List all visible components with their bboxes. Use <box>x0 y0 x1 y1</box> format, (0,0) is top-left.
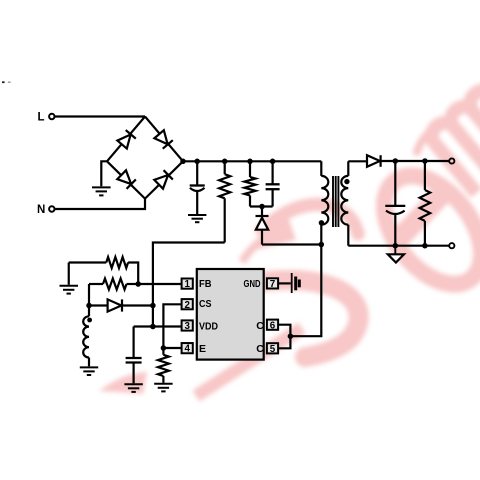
wire snubber bottom <box>250 205 273 207</box>
svg-text:C: C <box>256 343 264 355</box>
pin 7 box <box>267 278 278 288</box>
pin 6 box <box>267 320 278 330</box>
node rail-C1 <box>194 159 200 165</box>
node rail-C2 <box>270 159 276 165</box>
node rail-R1 <box>222 159 228 165</box>
svg-text:1: 1 <box>184 279 190 290</box>
wire collector to primary <box>290 245 321 337</box>
svg-text:5: 5 <box>270 344 276 355</box>
ground (pin7 sideways) <box>292 273 300 293</box>
diode D4 (bridge bottom-right) <box>154 170 173 189</box>
wire secondary top to diode <box>348 160 367 162</box>
svg-text:FB: FB <box>199 278 212 290</box>
resistor R1 (startup) <box>219 161 230 242</box>
wire bridge left vertex to ground <box>101 161 107 186</box>
capacitor C1 (bulk electrolytic) <box>190 161 205 214</box>
wire R4 left down to aux node <box>88 284 90 306</box>
svg-text:CS: CS <box>199 298 212 310</box>
wire R3 left to ground <box>68 263 70 285</box>
capacitor C4 (output electrolytic) <box>385 161 405 246</box>
terminal out- <box>449 243 454 248</box>
ground (output, triangle) <box>388 246 404 263</box>
inductor L1 (aux winding) <box>83 306 89 367</box>
speck marks top-left <box>2 81 11 83</box>
svg-text:L: L <box>38 112 45 124</box>
ground (C1) <box>188 215 206 222</box>
wire E pin4 <box>163 347 181 349</box>
diode D3 (bridge bottom-left) <box>117 170 136 189</box>
wire main DC rail <box>183 160 321 162</box>
resistor R3 (FB upper) <box>69 257 138 284</box>
wire pin6 <box>279 325 291 337</box>
wire GND pin7 <box>279 282 291 284</box>
ground (L1) <box>80 367 98 375</box>
wire output rail <box>381 160 450 162</box>
wire snubber to switch node <box>262 243 321 245</box>
svg-text:VDD: VDD <box>199 320 218 332</box>
wire R1 to VDD node <box>153 243 225 327</box>
resistor R5 (current sense) <box>158 355 169 383</box>
svg-text:GND: GND <box>244 278 261 290</box>
wire N to bridge <box>55 199 145 209</box>
transformer T1 core <box>333 176 338 227</box>
terminal L <box>38 112 55 124</box>
bridge edge bottom-right wire <box>145 161 183 198</box>
aux phase dot <box>87 318 92 323</box>
node switch (primary bottom) <box>319 242 325 248</box>
resistor R6 (load) <box>420 161 431 246</box>
pin 3 box <box>182 320 193 330</box>
diode D2 (bridge top-right) <box>154 130 173 149</box>
node FB divider <box>135 281 141 287</box>
node rail-R2 <box>247 159 253 165</box>
diode D5 (snubber clamp) <box>256 207 269 245</box>
terminal N <box>37 204 55 216</box>
wire FB to pin1 <box>138 283 181 285</box>
svg-text:2: 2 <box>184 300 190 311</box>
node bottom-C4 <box>393 243 399 249</box>
node collector join <box>288 333 294 339</box>
svg-text:E: E <box>199 343 206 355</box>
transformer T1 secondary winding <box>341 161 348 245</box>
capacitor C2 (snubber) <box>266 161 280 206</box>
transformer T1 primary winding <box>321 161 328 244</box>
wire VDD pin3 <box>134 325 181 327</box>
wire output bottom rail <box>348 245 449 247</box>
diode D1 (bridge top-left) <box>117 130 136 149</box>
node E-sense <box>161 345 167 351</box>
svg-text:6: 6 <box>270 320 276 331</box>
ground (R5) <box>154 384 172 392</box>
diode D7 (output rectifier) <box>367 155 381 167</box>
primary phase dot <box>319 220 324 225</box>
node bottom-R6 <box>422 243 428 249</box>
secondary phase dot <box>344 179 349 184</box>
svg-text:N: N <box>37 204 45 216</box>
diode D6 (VDD feed) <box>89 299 153 311</box>
ground (C3) <box>124 384 142 392</box>
svg-text:7: 7 <box>270 279 276 290</box>
pin 1 box <box>182 279 193 289</box>
bridge edge top-right wire <box>145 117 183 162</box>
bridge edge bottom-left wire <box>107 161 145 198</box>
wire L to bridge <box>55 115 145 117</box>
node aux-R4-diode <box>86 303 92 309</box>
svg-text:4: 4 <box>184 344 190 355</box>
resistor R2 (snubber) <box>244 161 255 206</box>
node snubber-diode <box>259 204 265 210</box>
node out-R6 <box>422 158 428 164</box>
capacitor C3 (VDD) <box>126 327 142 384</box>
pin 2 box <box>182 299 193 309</box>
ground (R3) <box>60 286 79 294</box>
pin 5 box <box>267 343 278 353</box>
resistor R4 (FB lower) <box>89 279 138 290</box>
node rail-bridge <box>180 159 186 165</box>
pin 4 box <box>182 343 193 353</box>
svg-text:C: C <box>256 320 264 332</box>
terminal out+ <box>449 158 454 163</box>
ground (bridge) <box>92 187 111 195</box>
IC U1 body <box>197 269 264 360</box>
node out-C4 <box>393 158 399 164</box>
bridge edge top-left wire <box>107 117 145 162</box>
node D6-VDD line <box>150 303 156 309</box>
svg-text:3: 3 <box>184 321 190 332</box>
node VDD line end <box>150 324 156 330</box>
IC U1 labels <box>184 278 275 355</box>
wire CS pin2 to sense node <box>163 304 181 355</box>
wire pin5 <box>279 336 291 348</box>
